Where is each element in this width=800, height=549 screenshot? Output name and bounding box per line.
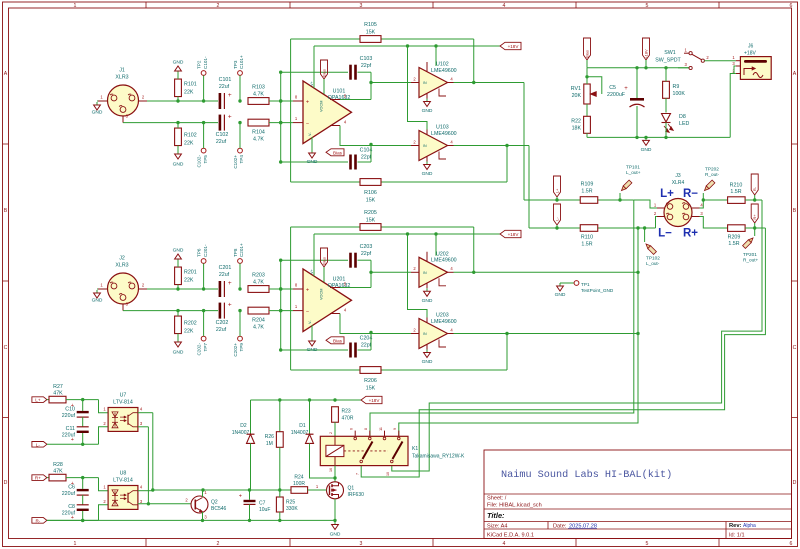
svg-text:A: A bbox=[4, 71, 8, 77]
resistor R28 47K bbox=[47, 477, 49, 479]
wire to buffer V+ bbox=[435, 234, 437, 256]
wire D2 to detect node bbox=[250, 443, 252, 490]
wire feedback R205 down bbox=[473, 227, 475, 272]
svg-text:C204: C204 bbox=[360, 336, 373, 342]
transistor Q2 BC546 bbox=[191, 496, 208, 513]
svg-text:6: 6 bbox=[790, 541, 793, 547]
wire U8 pin4 to node row bbox=[138, 490, 153, 492]
svg-text:22K: 22K bbox=[184, 90, 194, 96]
wire R+ net to relay bbox=[361, 228, 765, 477]
svg-text:TP2: TP2 bbox=[196, 60, 201, 69]
svg-text:10: 10 bbox=[386, 472, 390, 476]
svg-text:C103: C103 bbox=[360, 56, 373, 62]
resistor R205 15K bbox=[291, 226, 474, 228]
test point TP7 C202- bbox=[201, 336, 206, 341]
svg-text:L+: L+ bbox=[660, 188, 674, 200]
U203 pins bbox=[411, 333, 419, 335]
switch SW1 SW_SPDT bbox=[678, 67, 690, 69]
optocoupler U7 LTV-814 bbox=[108, 408, 138, 432]
svg-text:TP3: TP3 bbox=[233, 60, 238, 69]
svg-text:C10: C10 bbox=[65, 407, 75, 413]
svg-text:TP7: TP7 bbox=[203, 343, 208, 352]
svg-text:220uf: 220uf bbox=[62, 491, 76, 497]
svg-text:Bias: Bias bbox=[321, 69, 326, 77]
resistor R102 22K bbox=[175, 128, 182, 146]
wire feedback R206 ch2 up bbox=[506, 334, 508, 371]
capacitor C203 22pf bbox=[281, 259, 348, 261]
connector J6 +18V barrel jack bbox=[740, 57, 771, 80]
svg-text:R205: R205 bbox=[364, 210, 377, 216]
Q2 emitter wire bbox=[202, 512, 204, 520]
svg-text:R25: R25 bbox=[286, 500, 295, 506]
svg-text:SW_SPDT: SW_SPDT bbox=[655, 58, 681, 64]
svg-text:R+: R+ bbox=[683, 228, 698, 240]
svg-text:IN: IN bbox=[423, 271, 427, 275]
svg-text:4: 4 bbox=[503, 541, 506, 547]
wire to U8 pin2 bbox=[99, 505, 109, 521]
svg-text:C101: C101 bbox=[219, 77, 232, 83]
U202 pins bbox=[411, 271, 419, 273]
svg-text:Sheet: /: Sheet: / bbox=[487, 496, 507, 502]
svg-text:Title:: Title: bbox=[487, 511, 505, 520]
svg-text:Bias: Bias bbox=[584, 50, 589, 58]
svg-text:22uf: 22uf bbox=[219, 272, 230, 278]
svg-text:Rev:: Rev: bbox=[729, 523, 742, 529]
svg-text:D2: D2 bbox=[240, 423, 247, 429]
svg-text:LME49600: LME49600 bbox=[431, 68, 457, 74]
svg-text:GND: GND bbox=[173, 248, 184, 254]
wire bbox=[370, 260, 372, 287]
svg-text:R-: R- bbox=[752, 186, 757, 191]
+18V rail relay section bbox=[251, 399, 362, 401]
resistor R209 1.5R bbox=[728, 225, 746, 232]
svg-text:−: − bbox=[306, 309, 309, 315]
wire U103 output right bbox=[454, 145, 530, 147]
svg-text:3: 3 bbox=[360, 541, 363, 547]
svg-text:R27: R27 bbox=[53, 384, 63, 390]
svg-text:C8: C8 bbox=[68, 504, 75, 510]
mosfet Q1 IRF630 bbox=[334, 466, 336, 482]
svg-text:9: 9 bbox=[393, 428, 397, 430]
capacitor C6 220uf bbox=[82, 478, 84, 489]
test point TP5 C102- bbox=[201, 148, 206, 153]
svg-text:22uf: 22uf bbox=[219, 84, 230, 90]
svg-text:LME49600: LME49600 bbox=[431, 319, 457, 325]
svg-text:GND: GND bbox=[92, 110, 103, 116]
wire U7 pin4 to U8 pin4 and row bbox=[138, 412, 153, 414]
svg-text:R_out-: R_out- bbox=[705, 172, 720, 177]
Bias label right of U201 Vocm bbox=[326, 337, 344, 344]
input label R- bbox=[32, 518, 47, 524]
U101 output pins bbox=[330, 99, 340, 101]
resistor R204 4.7K bbox=[248, 307, 269, 314]
wire to lower buffer V+ bbox=[408, 46, 428, 130]
svg-text:Bias: Bias bbox=[333, 338, 343, 343]
connector J3 XLR4 bbox=[664, 199, 692, 227]
wire to U7 pin1 bbox=[99, 400, 109, 413]
svg-text:Q1: Q1 bbox=[348, 486, 355, 492]
svg-text:GND: GND bbox=[307, 159, 318, 165]
svg-text:B: B bbox=[793, 208, 797, 214]
wire bbox=[371, 271, 411, 273]
wire bbox=[269, 100, 293, 102]
svg-text:R101: R101 bbox=[184, 82, 197, 88]
resistor R9 100K bbox=[663, 81, 670, 98]
U101 V+ pin wire bbox=[313, 46, 315, 88]
relay dashed actuator line bbox=[344, 450, 388, 452]
LED D8 bbox=[662, 114, 671, 123]
svg-text:10uF: 10uF bbox=[259, 507, 270, 513]
ground above R201 bbox=[177, 259, 179, 262]
input label L+ bbox=[32, 397, 47, 403]
ground below U103 bbox=[426, 162, 428, 165]
ground symbol power section bbox=[645, 137, 647, 140]
svg-text:C201-: C201- bbox=[203, 244, 208, 257]
op-amp U101 OPA1632 bbox=[303, 81, 352, 144]
Bias label above U201 bbox=[321, 248, 328, 267]
resistor R203 4.7K bbox=[248, 286, 269, 293]
J6 pins bbox=[736, 60, 741, 62]
relay contact levers bbox=[363, 442, 373, 460]
svg-text:OPA1632: OPA1632 bbox=[328, 283, 351, 289]
+18V supply rail wire bbox=[314, 45, 500, 47]
svg-text:K1: K1 bbox=[412, 446, 418, 452]
svg-text:GND: GND bbox=[330, 532, 341, 538]
svg-text:2200uF: 2200uF bbox=[607, 92, 626, 98]
svg-text:6: 6 bbox=[790, 3, 793, 9]
svg-text:22K: 22K bbox=[184, 278, 194, 284]
wire bbox=[370, 72, 372, 99]
Q1 source to ground bbox=[334, 499, 336, 521]
global label L- bbox=[554, 204, 561, 225]
wire bbox=[745, 227, 765, 229]
svg-text:J1: J1 bbox=[119, 68, 125, 74]
svg-text:1M: 1M bbox=[266, 441, 273, 447]
wire bbox=[340, 314, 411, 334]
Bias label above U101 bbox=[321, 60, 328, 79]
svg-text:TP101: TP101 bbox=[626, 165, 640, 170]
svg-text:R24: R24 bbox=[294, 475, 303, 481]
ground below U102 bbox=[426, 99, 428, 102]
diode D1 1N4007 bbox=[309, 400, 311, 434]
title block bbox=[484, 450, 792, 539]
svg-text:R+: R+ bbox=[752, 214, 757, 220]
svg-text:VOCM: VOCM bbox=[320, 101, 324, 112]
svg-text:R28: R28 bbox=[53, 462, 63, 468]
wire U8 pin3 to Q2 base bbox=[138, 503, 191, 505]
svg-text:+: + bbox=[228, 114, 232, 121]
svg-text:C: C bbox=[4, 345, 8, 351]
buffer U203 LME49600 bbox=[419, 319, 448, 349]
svg-text:Date:: Date: bbox=[553, 523, 567, 529]
U103 pins bbox=[411, 145, 419, 147]
svg-text:BC546: BC546 bbox=[211, 506, 227, 512]
svg-text:U8: U8 bbox=[120, 471, 127, 477]
capacitor C101 22uf bbox=[219, 93, 222, 109]
svg-text:1.5R: 1.5R bbox=[581, 242, 592, 248]
capacitor C201 22uf bbox=[219, 281, 222, 297]
potentiometer RV1 20K bbox=[584, 84, 590, 104]
U101 V- pin and ground bbox=[311, 137, 313, 150]
resistor R206 15K bbox=[291, 369, 507, 371]
relay coil pins bbox=[334, 436, 336, 445]
svg-text:LED: LED bbox=[679, 121, 689, 127]
feedback vertical wires left of U101 bbox=[290, 39, 292, 182]
ground at J2 pin1 bbox=[97, 288, 98, 290]
relay coil bbox=[326, 445, 344, 456]
svg-text:KiCad E.D.A. 9.0.1: KiCad E.D.A. 9.0.1 bbox=[487, 532, 534, 538]
svg-text:+: + bbox=[228, 280, 232, 287]
svg-text:22pf: 22pf bbox=[361, 63, 372, 69]
svg-text:D8: D8 bbox=[679, 114, 686, 120]
svg-text:R22: R22 bbox=[571, 119, 581, 125]
svg-text:D: D bbox=[793, 480, 797, 486]
capacitor C202 22uf bbox=[219, 303, 222, 319]
svg-text:V+: V+ bbox=[310, 80, 314, 86]
svg-text:V+: V+ bbox=[310, 268, 314, 274]
svg-text:−: − bbox=[306, 121, 309, 127]
+18V supply rail wire bbox=[314, 233, 500, 235]
svg-text:J3: J3 bbox=[675, 173, 681, 179]
svg-text:GND: GND bbox=[92, 298, 103, 304]
wire bbox=[269, 122, 293, 124]
svg-text:R204: R204 bbox=[252, 318, 265, 324]
svg-text:TP8: TP8 bbox=[233, 248, 238, 257]
svg-text:C: C bbox=[793, 345, 797, 351]
capacitor C5 2200uF bbox=[636, 68, 638, 98]
svg-text:LME49600: LME49600 bbox=[431, 258, 457, 264]
svg-text:RV1: RV1 bbox=[571, 86, 581, 92]
svg-text:22K: 22K bbox=[184, 329, 194, 335]
relay contact pin stubs bottom bbox=[360, 460, 363, 463]
capacitor C8 220uf bbox=[77, 504, 89, 506]
+18V power label bbox=[500, 42, 521, 49]
wire bbox=[371, 82, 411, 84]
svg-text:Q2: Q2 bbox=[211, 500, 218, 506]
svg-text:R9: R9 bbox=[673, 84, 680, 90]
svg-text:47K: 47K bbox=[53, 391, 63, 397]
svg-text:L_out+: L_out+ bbox=[626, 170, 641, 175]
ground below Q1 bbox=[334, 522, 336, 525]
ground above R101 bbox=[177, 71, 179, 74]
svg-text:47K: 47K bbox=[53, 469, 63, 475]
svg-text:+18V: +18V bbox=[744, 51, 756, 57]
svg-text:C203: C203 bbox=[360, 244, 373, 250]
svg-text:Bias: Bias bbox=[321, 257, 326, 265]
ground at J1 pin1 bbox=[97, 100, 98, 102]
wire bbox=[370, 333, 372, 351]
svg-text:Alpha: Alpha bbox=[743, 523, 756, 529]
svg-text:J6: J6 bbox=[748, 44, 754, 50]
Q2 collector wire bbox=[202, 490, 204, 497]
svg-text:Bias: Bias bbox=[333, 150, 343, 155]
svg-text:LTV-814: LTV-814 bbox=[113, 400, 133, 406]
global label L+ bbox=[554, 176, 561, 197]
svg-text:C5: C5 bbox=[609, 85, 616, 91]
svg-text:2: 2 bbox=[329, 432, 333, 434]
U102 pins bbox=[411, 82, 419, 84]
svg-text:L+: L+ bbox=[554, 188, 559, 193]
svg-text:U7: U7 bbox=[120, 393, 127, 399]
wire down to L+ row bbox=[523, 83, 525, 201]
svg-text:IN: IN bbox=[423, 81, 427, 85]
svg-text:1: 1 bbox=[74, 541, 77, 547]
svg-text:TP6: TP6 bbox=[196, 248, 201, 257]
buffer U103 LME49600 bbox=[419, 131, 448, 161]
svg-text:GND: GND bbox=[173, 350, 184, 356]
svg-text:XLR3: XLR3 bbox=[115, 263, 128, 269]
+18V rail top right bbox=[587, 67, 690, 69]
svg-text:R−: R− bbox=[683, 188, 698, 200]
wire D1 to Q1 drain bbox=[310, 443, 336, 478]
svg-text:1.5R: 1.5R bbox=[581, 189, 592, 195]
wire R- net to relay bbox=[392, 200, 762, 471]
global label R- bbox=[751, 174, 758, 195]
test point TP202 R_out- bbox=[702, 193, 704, 200]
diode D2 1N4007 bbox=[250, 400, 252, 434]
svg-text:L_out-: L_out- bbox=[646, 261, 660, 266]
svg-text:IN: IN bbox=[423, 144, 427, 148]
test point TP201 R_out+ bbox=[754, 228, 756, 236]
svg-text:4.7K: 4.7K bbox=[253, 91, 264, 97]
svg-text:22K: 22K bbox=[184, 141, 194, 147]
svg-text:R23: R23 bbox=[342, 409, 351, 415]
capacitor C7 10uF bbox=[249, 490, 251, 500]
svg-text:R_out+: R_out+ bbox=[743, 258, 759, 263]
svg-text:C7: C7 bbox=[259, 501, 266, 507]
svg-text:R104: R104 bbox=[252, 130, 265, 136]
wire down to L- row bbox=[528, 146, 530, 229]
svg-text:4.7K: 4.7K bbox=[253, 279, 264, 285]
wire U202 output row bbox=[454, 271, 639, 273]
svg-text:15K: 15K bbox=[366, 218, 376, 224]
svg-text:+: + bbox=[306, 99, 309, 105]
svg-text:GND: GND bbox=[422, 298, 433, 304]
svg-text:22uf: 22uf bbox=[216, 139, 227, 145]
resistor R25 330K bbox=[276, 497, 283, 512]
svg-text:XLR3: XLR3 bbox=[115, 75, 128, 81]
U201 V- pin and ground bbox=[311, 325, 313, 338]
svg-text:R105: R105 bbox=[364, 22, 377, 28]
Bias label above RV1 bbox=[584, 38, 591, 60]
svg-text:GND: GND bbox=[307, 347, 318, 353]
svg-text:VOCM: VOCM bbox=[320, 289, 324, 300]
svg-text:TP201: TP201 bbox=[743, 252, 757, 257]
svg-text:+: + bbox=[239, 494, 242, 500]
resistor R201 22K bbox=[175, 267, 182, 285]
svg-text:220uf: 220uf bbox=[62, 413, 76, 419]
test point TP4 C102+ bbox=[238, 148, 243, 153]
svg-text:15K: 15K bbox=[366, 30, 376, 36]
svg-text:6: 6 bbox=[350, 428, 354, 430]
svg-text:LTV-814: LTV-814 bbox=[113, 478, 133, 484]
wire L- net to relay bbox=[399, 228, 638, 436]
wire bbox=[123, 122, 218, 124]
wire SW1 to J6 bbox=[704, 60, 736, 62]
test point TP2 C101- bbox=[201, 71, 206, 76]
svg-text:R103: R103 bbox=[252, 85, 265, 91]
ground below R202 bbox=[177, 339, 179, 342]
svg-text:XLR4: XLR4 bbox=[672, 180, 685, 186]
svg-text:100K: 100K bbox=[673, 91, 686, 97]
resistor R104 4.7K bbox=[248, 119, 269, 126]
buffer U102 LME49600 bbox=[419, 68, 448, 98]
svg-text:2: 2 bbox=[217, 3, 220, 9]
svg-text:4.7K: 4.7K bbox=[253, 137, 264, 143]
svg-text:TestPoint_GND: TestPoint_GND bbox=[581, 288, 614, 293]
svg-text:TP202: TP202 bbox=[705, 167, 719, 172]
svg-text:R+: R+ bbox=[35, 476, 41, 481]
resistor R105 15K bbox=[291, 38, 474, 40]
test point TP1 TestPoint_GND bbox=[560, 282, 574, 284]
svg-text:Takamisawa_RY12W-K: Takamisawa_RY12W-K bbox=[412, 454, 465, 460]
wire bbox=[123, 310, 218, 312]
ground below R102 bbox=[177, 151, 179, 154]
U101 input pins bbox=[293, 100, 303, 102]
svg-text:470R: 470R bbox=[342, 416, 354, 422]
svg-text:A: A bbox=[793, 71, 797, 77]
resistor R22 18K bbox=[584, 116, 591, 133]
wire U7 pin3 down to U8 pin3 row bbox=[138, 426, 149, 428]
+18V power label bbox=[500, 230, 521, 237]
wire bbox=[66, 477, 99, 479]
wire to buffer V+ bbox=[435, 46, 437, 66]
svg-text:C102-: C102- bbox=[196, 155, 201, 168]
svg-text:TP1: TP1 bbox=[581, 282, 590, 287]
resistor R26 1M bbox=[279, 400, 281, 432]
test point TP8 C201+ bbox=[238, 259, 243, 264]
+18V label power section bbox=[643, 38, 650, 60]
resistor R27 47K bbox=[47, 399, 49, 401]
svg-text:+: + bbox=[306, 287, 309, 293]
svg-text:R26: R26 bbox=[265, 434, 274, 440]
wire bbox=[269, 310, 293, 312]
test point TP102 L_out- bbox=[643, 226, 646, 229]
svg-text:TP4: TP4 bbox=[239, 155, 244, 164]
svg-text:TP5: TP5 bbox=[203, 155, 208, 164]
svg-text:GND: GND bbox=[422, 171, 433, 177]
svg-text:TP102: TP102 bbox=[646, 256, 660, 261]
+18V label relay section bbox=[361, 396, 382, 403]
test point TP101 L_out+ bbox=[618, 198, 621, 201]
svg-text:L+: L+ bbox=[35, 398, 41, 403]
svg-text:5: 5 bbox=[646, 3, 649, 9]
wire feedback R105 to output bbox=[473, 39, 475, 83]
wire bbox=[340, 126, 411, 146]
svg-text:C101+: C101+ bbox=[239, 55, 244, 69]
ground rail bottom of power section bbox=[587, 136, 730, 138]
op-amp U201 OPA1632 bbox=[303, 269, 352, 332]
wire L+ row bbox=[524, 199, 634, 201]
svg-text:C202+: C202+ bbox=[233, 343, 238, 357]
resistor R109 1.5R bbox=[580, 197, 598, 204]
wire feedback R106 up bbox=[506, 146, 508, 183]
svg-text:C201+: C201+ bbox=[239, 243, 244, 257]
global label R+ bbox=[751, 204, 758, 223]
svg-text:22pf: 22pf bbox=[361, 155, 372, 161]
svg-text:R110: R110 bbox=[581, 235, 593, 241]
svg-text:R210: R210 bbox=[730, 183, 743, 189]
svg-text:R109: R109 bbox=[581, 182, 594, 188]
connector J2 XLR3 bbox=[108, 273, 139, 304]
svg-text:11: 11 bbox=[379, 427, 383, 431]
resistor R103 4.7K bbox=[248, 98, 269, 105]
svg-text:2: 2 bbox=[217, 541, 220, 547]
svg-text:TP9: TP9 bbox=[239, 343, 244, 352]
wire bbox=[47, 519, 99, 521]
wire U102 output to feedback bbox=[454, 82, 525, 84]
wire to J3 pin2 bbox=[656, 217, 658, 229]
